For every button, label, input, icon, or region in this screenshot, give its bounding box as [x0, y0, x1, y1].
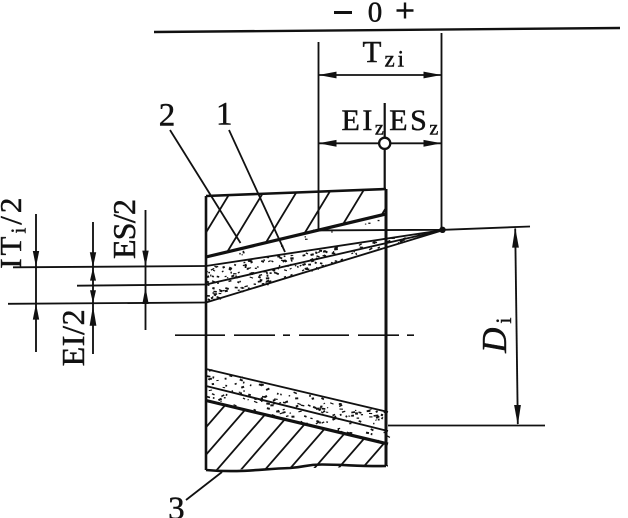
leader line of label 2 — [170, 130, 241, 243]
zero line — [154, 28, 620, 32]
label 2 — [159, 98, 176, 134]
label 0 — [368, 0, 383, 29]
dimension line EIz ESz — [319, 140, 442, 147]
svg-text:3: 3 — [168, 491, 185, 518]
nominal line left (line2) — [77, 285, 206, 286]
extension line left (given cross-section) — [318, 42, 320, 230]
basic deviation circle — [379, 138, 390, 149]
upper deviation line (line1) — [13, 266, 206, 267]
label plus — [397, 3, 414, 19]
leader line of label 1 — [229, 130, 285, 252]
label D_i — [475, 313, 516, 353]
ITi/2 dimension line with arrows — [33, 214, 39, 352]
label ES_z — [389, 104, 440, 140]
label minus — [334, 11, 352, 14]
svg-text:EI/2: EI/2 — [55, 309, 91, 366]
vertical stub at basic deviation point — [384, 103, 386, 190]
svg-text:0: 0 — [368, 0, 383, 29]
label 1 — [216, 97, 233, 133]
ES/2 dimension line with arrows — [142, 210, 148, 330]
label IT_i/2 — [0, 195, 30, 269]
leader line of label 3 — [186, 472, 222, 500]
svg-text:1: 1 — [216, 97, 233, 133]
Di lower extension line — [388, 425, 545, 427]
part top edge — [206, 189, 386, 196]
label EI/2 — [55, 309, 91, 366]
dimension line T_zi — [319, 72, 442, 79]
apex junction — [439, 227, 445, 233]
tolerance zone stipple (upper) — [205, 220, 420, 301]
EI/2 dimension line with arrows — [90, 222, 97, 354]
label EI_z — [342, 104, 387, 140]
extension line right — [441, 33, 443, 230]
tolerance zone stipple (lower) — [207, 369, 390, 442]
Di dimension line with arrows — [512, 228, 521, 425]
lower deviation line (line3) — [8, 303, 206, 304]
upper limit line A — [206, 230, 444, 266]
cone surface line lower (thick) — [206, 401, 388, 445]
nominal line B' — [206, 386, 388, 431]
centerline (axis) — [175, 334, 422, 336]
label T_zi — [363, 34, 408, 72]
label ES/2 — [106, 199, 142, 259]
lower limit line C — [206, 230, 444, 303]
part right edge — [385, 189, 388, 466]
part bottom break line (wavy) — [206, 465, 386, 472]
hatching of part body (upper) — [120, 150, 553, 320]
svg-text:2: 2 — [159, 98, 176, 134]
svg-text:ES/2: ES/2 — [106, 199, 142, 259]
cone surface line upper (thick) — [206, 214, 386, 257]
section diameter line through apex — [313, 227, 530, 231]
lower limit line C' — [206, 369, 388, 412]
nominal line B — [206, 230, 444, 285]
part left edge — [205, 196, 208, 470]
hatching of part body (lower) — [130, 386, 554, 487]
label 3 — [168, 491, 185, 518]
